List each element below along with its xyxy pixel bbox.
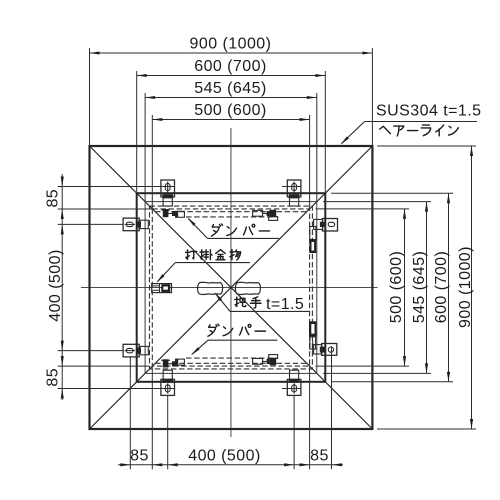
extension line 600 left xyxy=(136,71,138,193)
extension line right 900 top xyxy=(377,145,476,147)
extra dashed line top inner 2 xyxy=(186,216,277,218)
corner bevel diagonal top-right xyxy=(325,146,372,193)
extension line right 545 bottom xyxy=(323,372,431,374)
label hairline (katakana) xyxy=(380,126,391,133)
dimension 900 (1000) top xyxy=(90,52,373,54)
dimension 500 (600) right xyxy=(404,209,406,366)
bottom dimension line xyxy=(118,464,343,466)
svg-text:400 (500): 400 (500) xyxy=(47,249,64,322)
handle grip left half xyxy=(198,282,223,294)
svg-text:545 (645): 545 (645) xyxy=(411,251,428,324)
svg-text:85: 85 xyxy=(45,368,62,387)
horizontal centerline xyxy=(81,287,378,289)
dimension 600 (700) right xyxy=(448,193,450,382)
extension line side piece upper left xyxy=(58,223,123,225)
panel diagonal X line 1 xyxy=(137,193,326,382)
svg-text:545 (645): 545 (645) xyxy=(194,80,267,97)
svg-text:500 (600): 500 (600) xyxy=(194,102,267,119)
left dim arrows 85 bottom xyxy=(61,356,64,366)
extension line side piece lower left xyxy=(58,350,123,352)
latch keeper lower-right xyxy=(322,344,337,356)
leader handle xyxy=(230,310,309,312)
label damper top (katakana) xyxy=(211,224,222,236)
outer dashed square xyxy=(150,206,313,369)
svg-text:85: 85 xyxy=(310,447,329,464)
damper bottom-right xyxy=(253,358,263,364)
svg-text:t=1.5: t=1.5 xyxy=(266,296,304,313)
extension line 500 top edge left xyxy=(58,208,153,210)
svg-text:900 (1000): 900 (1000) xyxy=(190,36,272,53)
dimension 545 (645) top xyxy=(145,97,317,99)
dimension 500 (600) top xyxy=(152,119,309,121)
bottom dim arrows 400 xyxy=(168,463,178,466)
hinge top-left xyxy=(161,180,175,197)
latch keeper upper-right xyxy=(323,219,338,232)
svg-text:SUS304 t=1.5: SUS304 t=1.5 xyxy=(376,103,481,120)
vertical centerline xyxy=(230,128,232,437)
bottom dim arrows 85 left xyxy=(120,463,130,466)
extension line panel 500 left down xyxy=(151,366,153,469)
extension line hinge pivot bottom-left xyxy=(58,388,175,390)
extension line side piece left down xyxy=(129,358,131,470)
leader SUS304 xyxy=(365,121,477,123)
extension line hinge pivot top-left xyxy=(58,186,175,188)
extension line hinge left down xyxy=(167,396,169,470)
extension line right 600 bottom xyxy=(331,381,453,383)
extension line 500 bottom edge left xyxy=(58,365,150,367)
outer frame square 900x900 xyxy=(90,146,373,429)
label latch hardware (kanji) xyxy=(186,250,197,259)
damper bottom-left xyxy=(163,359,169,367)
leader latch hardware xyxy=(175,262,250,264)
svg-text:600 (700): 600 (700) xyxy=(433,251,450,324)
dimension 600 (700) top xyxy=(137,75,326,77)
extension line right 900 bottom xyxy=(377,428,476,430)
left dimension line xyxy=(61,174,63,400)
extension line side piece right down xyxy=(331,346,333,469)
corner bevel diagonal bottom-left xyxy=(90,382,137,429)
extra dashed line bottom inner 2 xyxy=(186,357,277,359)
latch hardware left-center xyxy=(152,284,172,293)
panel diagonal X line 2 xyxy=(137,193,326,382)
inner frame square 600x600 xyxy=(137,193,326,382)
label damper bottom (katakana) xyxy=(208,324,219,336)
leader damper bottom xyxy=(208,339,277,341)
extension line right 500 top xyxy=(316,208,410,210)
door panel dashed square 500 xyxy=(152,209,309,366)
hinge top-right xyxy=(287,180,301,197)
extension line hinge right down xyxy=(293,396,295,470)
extension line right 600 top xyxy=(331,192,453,194)
extension line right 500 bottom xyxy=(316,365,410,367)
corner bevel diagonal top-left xyxy=(90,146,137,193)
extension line panel 500 right down xyxy=(309,366,311,469)
damper top-right xyxy=(253,210,263,216)
extension line 500 right xyxy=(309,115,311,209)
dimension 545 (645) right xyxy=(426,202,428,374)
svg-text:900 (1000): 900 (1000) xyxy=(457,246,474,328)
extension line right 545 top xyxy=(323,201,431,203)
extension line right outer top xyxy=(371,48,373,146)
corner bevel diagonal bottom-right xyxy=(325,382,372,429)
svg-text:85: 85 xyxy=(130,447,149,464)
side piece upper-left xyxy=(123,218,139,231)
extension line 600 right xyxy=(324,71,326,193)
extension line 545 right xyxy=(316,93,318,202)
door panel solid square 545 xyxy=(145,202,317,374)
dimension 900 (1000) right xyxy=(471,146,473,429)
hinge bottom-left xyxy=(161,379,175,395)
svg-text:600 (700): 600 (700) xyxy=(194,58,267,75)
side piece lower-left xyxy=(123,344,139,357)
leader damper top xyxy=(208,237,280,239)
bottom dim arrows 85 right xyxy=(300,463,310,466)
extension line 545 left xyxy=(144,93,146,202)
extra dashed line top inner 1 xyxy=(155,211,307,213)
extension line left outer top xyxy=(89,48,91,146)
handle grip right half xyxy=(235,282,260,294)
hinge bottom-right xyxy=(287,379,301,395)
extra dashed line bottom inner 1 xyxy=(155,362,307,364)
left dim arrows 400 xyxy=(61,224,64,234)
extension line 500 left xyxy=(151,115,153,209)
label handle (kanji) + t=1.5 xyxy=(235,297,246,307)
svg-text:500 (600): 500 (600) xyxy=(388,251,405,324)
svg-text:85: 85 xyxy=(45,189,62,208)
damper top-left xyxy=(163,209,169,217)
left dim arrows 85 top xyxy=(61,177,64,187)
svg-text:400 (500): 400 (500) xyxy=(188,447,261,464)
